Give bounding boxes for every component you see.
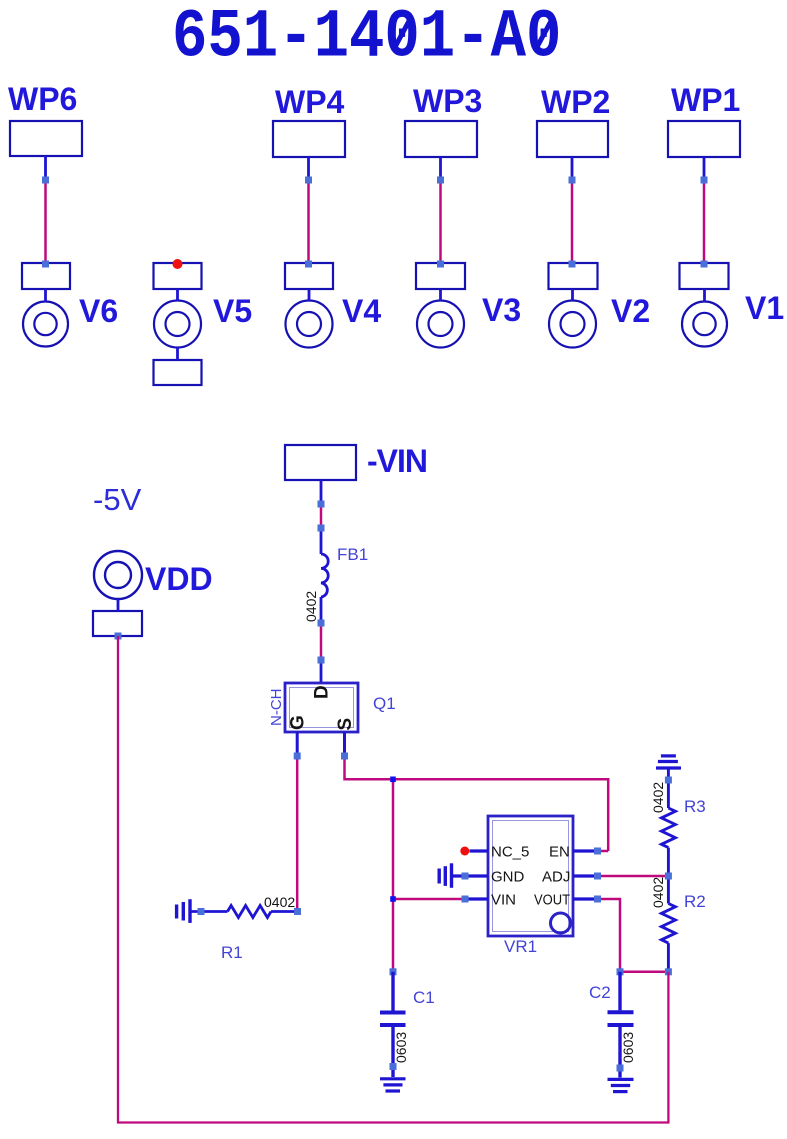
svg-text:0402: 0402 [650,782,666,813]
svg-text:WP3: WP3 [413,83,482,119]
svg-text:S: S [335,718,356,731]
svg-text:0402: 0402 [650,877,666,908]
svg-text:V4: V4 [342,293,381,329]
svg-text:G: G [288,715,309,730]
svg-text:0603: 0603 [393,1032,409,1063]
svg-text:V2: V2 [611,293,650,329]
svg-text:R2: R2 [684,892,706,911]
svg-text:FB1: FB1 [337,545,368,564]
svg-text:-5V: -5V [93,482,142,517]
svg-text:Q1: Q1 [373,694,396,713]
svg-text:VR1: VR1 [504,937,537,956]
svg-text:N-CH: N-CH [268,689,285,727]
svg-text:V6: V6 [79,293,118,329]
svg-text:D: D [312,685,333,699]
svg-text:NC_5: NC_5 [491,844,529,861]
svg-text:VOUT: VOUT [534,892,570,909]
svg-text:V1: V1 [745,290,784,326]
svg-text:VIN: VIN [491,892,516,909]
svg-text:651-1401-A0: 651-1401-A0 [172,0,561,77]
svg-text:WP6: WP6 [8,81,77,117]
svg-text:0402: 0402 [264,894,295,910]
svg-text:C2: C2 [589,983,611,1002]
svg-text:V5: V5 [213,293,252,329]
svg-text:ADJ: ADJ [542,869,570,886]
svg-text:VDD: VDD [145,561,213,597]
svg-text:WP2: WP2 [541,84,610,120]
svg-text:V3: V3 [482,292,521,328]
svg-text:0402: 0402 [303,591,319,622]
svg-text:WP4: WP4 [275,84,345,120]
svg-text:0603: 0603 [620,1032,636,1063]
svg-text:C1: C1 [413,988,435,1007]
svg-text:WP1: WP1 [671,82,740,118]
svg-text:-VIN: -VIN [367,443,427,479]
svg-text:EN: EN [549,844,570,861]
svg-text:GND: GND [491,869,525,886]
svg-text:R3: R3 [684,797,706,816]
svg-text:R1: R1 [221,943,243,962]
